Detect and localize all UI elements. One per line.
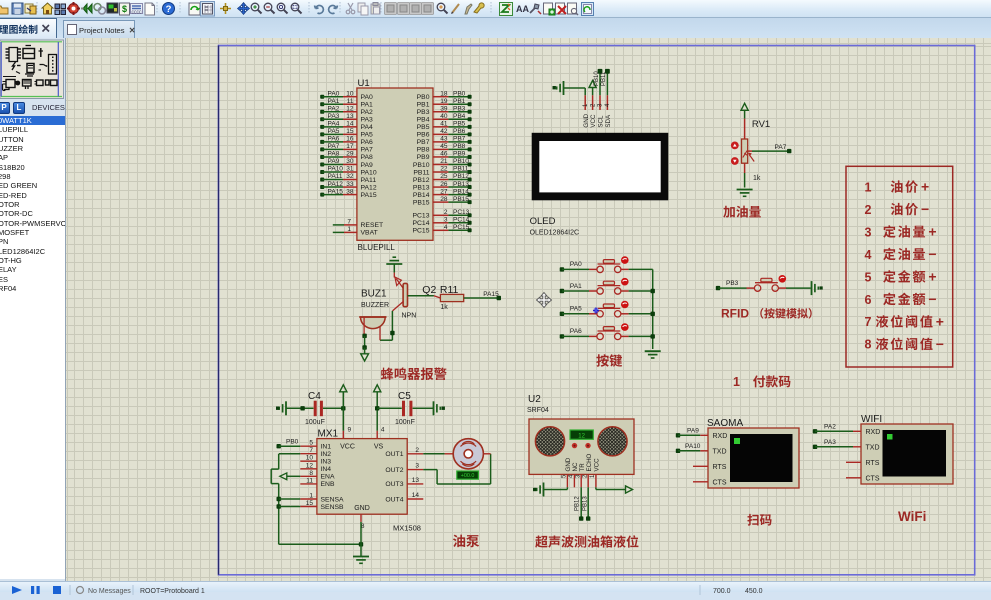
svg-text:9: 9 [348,427,352,434]
svg-text:PA4: PA4 [328,121,340,128]
module WIFI designator [861,414,882,425]
svg-text:43: 43 [440,136,448,143]
svg-text:PA6: PA6 [328,136,340,143]
U1 pin 2 (PC13) with net PC13 wire+node [412,209,471,220]
svg-text:38: 38 [346,188,354,195]
node PA2 wire to WIFI RXD [813,424,861,434]
svg-text:PA0: PA0 [328,90,340,97]
module SAOMA designator [707,418,743,429]
svg-text:PB13: PB13 [413,184,430,191]
wire VCC rail [342,392,344,431]
svg-text:OUT2: OUT2 [385,467,403,474]
MX1 pin name VCC [340,444,355,451]
wire rail vertical [652,269,654,349]
svg-text:PB4: PB4 [453,113,466,120]
svg-text:PA12: PA12 [328,181,344,188]
node PA10 wire to SAOMA TXD [676,443,708,453]
svg-text:PB12: PB12 [453,173,469,180]
svg-text:PA6: PA6 [361,139,374,146]
SAOMA pin TXD [713,448,727,455]
OLED pin 3 (SCL) [598,95,605,127]
svg-text:PA2: PA2 [824,424,836,431]
svg-text:PA10: PA10 [685,443,701,450]
svg-text:GND: GND [354,505,370,512]
U1 pin 18 (PB0) with net PB0 wire+node [417,90,472,101]
wire GND pin down [360,522,362,557]
power VCC arrow (OLED) [589,81,596,96]
IC U1 value BLUEPILL [358,243,396,252]
svg-text:1: 1 [309,493,313,500]
RV1 actuator up [731,142,739,150]
U1 pin 46 (PB9) with net PB9 wire+node [417,151,472,162]
motor rpm display [457,471,479,479]
svg-text:$: $ [122,4,127,14]
svg-text:1: 1 [347,226,351,233]
svg-text:PA11: PA11 [328,173,343,180]
svg-text:26: 26 [440,181,448,188]
RV1 wiper arrow [748,153,754,162]
table row 2 油价- [865,201,930,217]
wire TR to node PB12 [575,487,584,521]
wire button PA0 to rail [629,268,653,270]
resistor R11 designator [440,284,459,296]
U1 pin 7 (RESET) [333,219,383,230]
svg-text:RTS: RTS [866,460,880,467]
potentiometer RV1 body [742,119,748,173]
U1 pin 43 (PB7) with net PB7 wire+node [417,136,472,147]
MX1 pin GND (8) [361,514,365,530]
table row 8 液位阈值- [865,336,944,352]
node PA3 wire to WIFI TXD [813,439,861,449]
push button PA5 row, node PA5 [560,301,629,317]
svg-text:BLUEPILL: BLUEPILL [358,243,396,252]
SAOMA pin RTS [713,464,727,471]
svg-text:TR: TR [579,463,586,472]
svg-text:AA: AA [516,4,529,14]
svg-text:+00.0: +00.0 [461,473,475,479]
OLED value OLED12864I2C [530,230,579,237]
label WiFi [898,509,926,524]
MX1 VS pin 4 [377,427,385,439]
wire VS rail [376,392,378,431]
SAOMA pin RXD [713,433,728,440]
U1 pin 13 (PA3) with net PA3 wire+node [320,113,373,124]
wire BUZ1 left pin down [362,317,366,354]
svg-text:PB14: PB14 [453,188,469,195]
svg-text:−: − [928,291,936,307]
U1 pin 10 (PA0) with net PA0 wire+node [320,90,373,101]
svg-text:BUZ1: BUZ1 [361,289,387,300]
svg-text:30: 30 [346,158,354,165]
svg-text:IN1: IN1 [321,444,332,451]
svg-text:22: 22 [440,166,448,173]
U1 pin 26 (PB13) with net PB13 wire+node [413,181,472,192]
svg-text:PB0: PB0 [417,94,430,101]
svg-text:SCL: SCL [598,115,605,128]
svg-text:PA15: PA15 [483,291,499,298]
U2 pin 5 (GND) [562,457,572,487]
MX1 pin 8 (ENA) [300,470,335,481]
U1 pin 14 (PA4) with net PA4 wire+node [320,121,373,132]
svg-text:PA7: PA7 [328,143,340,150]
MX1 pin name VS [374,444,384,451]
svg-text:17: 17 [346,143,354,150]
svg-text:No Messages: No Messages [88,588,131,595]
svg-text:PB11: PB11 [413,169,429,176]
svg-text:5: 5 [865,270,872,284]
ground (buttons rail) [645,351,661,358]
resistor R11 value 1k [440,304,448,311]
svg-text:4: 4 [865,248,872,262]
svg-text:700.0: 700.0 [713,588,731,595]
svg-text:PB6: PB6 [453,128,466,135]
svg-text:PA1: PA1 [328,98,340,105]
wire ENA arrow to pin [287,475,301,477]
svg-text:OUT3: OUT3 [385,481,403,488]
U1 pin 32 (PA11) with net PA11 wire+node [320,173,376,184]
svg-text:PB12: PB12 [575,496,581,511]
capacitor C5 designator [398,391,411,402]
wire ECHO to node PB13 [583,487,591,521]
svg-text:VCC: VCC [340,444,355,451]
U1 pin 27 (PB14) with net PB14 wire+node [413,188,472,199]
svg-text:PB15: PB15 [453,196,469,203]
svg-text:41: 41 [440,121,448,128]
left object selector panel [0,38,66,581]
svg-text:15: 15 [306,500,314,507]
svg-text:?: ? [166,4,172,15]
svg-text:CTS: CTS [866,475,880,482]
U1 pin 3 (PC14) with net PC14 wire+node [412,217,471,228]
svg-text:MX1508: MX1508 [393,524,421,533]
svg-text:PA10: PA10 [328,166,344,173]
U1 pin 30 (PA9) with net PA9 wire+node [320,158,373,169]
module WIFI body [861,424,953,484]
svg-text:RTS: RTS [713,464,727,471]
wire VS junction to C5 [375,406,402,410]
svg-text:−: − [936,336,944,352]
label 1 付款码 [733,375,790,389]
svg-text:100uF: 100uF [305,419,325,426]
svg-text:7: 7 [347,219,351,226]
svg-text:PB3: PB3 [417,109,430,116]
svg-text:10: 10 [306,455,314,462]
wire RV1 wiper to node PA7 [748,144,792,153]
svg-text:PA6: PA6 [570,328,582,335]
cursor move arrow artifact [537,293,552,308]
svg-text:GND: GND [565,457,572,471]
svg-text:+: + [921,179,929,195]
svg-text:PC13: PC13 [453,209,470,216]
wire Q2 base to R11 [408,296,441,298]
svg-text:1: 1 [733,375,740,389]
svg-text:PB3: PB3 [726,280,739,287]
wire bracket vertical with bulge [271,454,279,545]
label 油泵 [453,535,479,548]
U2 pin 3 (TR) [575,463,585,488]
svg-text:10: 10 [346,90,354,97]
SAOMA pin RTS stub [693,465,708,467]
power terminal down arrow (buzzer) [361,354,369,361]
svg-text:PA3: PA3 [328,113,340,120]
wire RFID button to ground [786,287,811,289]
svg-text:PC13: PC13 [412,213,429,220]
ground (C5) [434,401,445,415]
motor (oil pump) body [453,439,483,469]
power arrow (RV1) [741,103,748,118]
U1 pin 19 (PB1) with net PB1 wire+node [417,98,472,109]
svg-text:PB9: PB9 [417,154,430,161]
svg-text:2: 2 [415,447,419,454]
U1 pin 11 (PA1) with net PA1 wire+node [320,98,373,109]
svg-text:31: 31 [346,166,354,173]
svg-text:OUT4: OUT4 [385,496,403,503]
wire SCL + node PB10 [594,69,603,95]
module SAOMA body [708,428,799,488]
svg-text:PA9: PA9 [361,162,374,169]
svg-text:PA2: PA2 [361,109,374,116]
svg-text:−: − [928,246,936,262]
svg-text:OUT1: OUT1 [385,451,403,458]
svg-text:PA2: PA2 [328,105,340,112]
U1 pin 1 (VBAT) [333,226,378,237]
table box (key legend) [846,166,953,367]
svg-text:RXD: RXD [866,429,881,436]
svg-text:PA10: PA10 [361,169,377,176]
svg-text:7: 7 [309,447,313,454]
svg-text:ENB: ENB [321,481,335,488]
U1 pin 45 (PB8) with net PB8 wire+node [417,143,472,154]
wire ground to Q2 [393,264,395,273]
svg-text:PB13: PB13 [453,181,469,188]
svg-text:PA0: PA0 [570,261,582,268]
svg-text:+: + [928,268,936,284]
svg-text:OLED: OLED [530,216,556,227]
table row 1 油价+ [865,179,930,195]
RV1 value 1k [753,175,761,182]
SAOMA pin CTS stub [693,481,708,483]
svg-text:PA1: PA1 [570,283,582,290]
ground (U2) [533,483,544,497]
MX1 pin 10 (IN3) [300,455,331,466]
table row 4 定油量- [865,246,937,262]
wire button row to rail + junction [629,334,655,338]
svg-text:15: 15 [346,128,354,135]
WIFI pin RTS stub [846,461,861,463]
svg-text:3: 3 [415,463,419,470]
svg-text:450.0: 450.0 [745,588,763,595]
MX1 pin 3 (OUT2) [385,463,423,474]
svg-text:13: 13 [412,477,420,484]
svg-text:TXD: TXD [866,444,880,451]
node PA9 wire to SAOMA RXD [676,428,708,438]
svg-text:PB11: PB11 [453,166,469,173]
svg-text:PC15: PC15 [453,224,470,231]
tab 原理图绘制 (selected) [0,18,57,39]
svg-text:VS: VS [374,444,384,451]
buzzer BUZ1 body [359,317,386,329]
ground (MX1) [353,557,369,564]
RV1 actuator down [731,157,739,165]
status bar [0,581,991,592]
svg-text:PB5: PB5 [417,124,430,131]
U1 pin 16 (PA6) with net PA6 wire+node [320,136,373,147]
label 超声波测油箱液位 [535,535,638,547]
P/L buttons + DEVICES header [0,102,66,116]
ground (OLED) [553,81,564,95]
push button PA0 row, node PA0 [560,256,629,272]
U2 pin 4 (NC) [569,462,579,487]
svg-text:RESET: RESET [361,222,384,229]
svg-text:PB9: PB9 [453,151,466,158]
svg-text:25: 25 [440,173,448,180]
svg-text:PB8: PB8 [453,143,466,150]
svg-text:39: 39 [440,105,448,112]
wire SDA + node PB11 [601,69,610,95]
svg-text:PA9: PA9 [687,428,699,435]
MX1 pin 15 (SENSB) [300,500,344,511]
svg-text:45: 45 [440,143,448,150]
svg-text:U1: U1 [358,78,370,89]
buzzer BUZ1 value BUZZER [361,302,389,309]
SAOMA pin CTS [713,479,727,486]
U1 pin 25 (PB12) with net PB12 wire+node [413,173,472,184]
svg-text:GND: GND [583,113,590,127]
wire U2 VCC to power [596,487,626,489]
node PB0 wire to MX1 IN1 [277,439,301,449]
U1 pin 4 (PC15) with net PC15 wire+node [412,224,471,235]
top toolbar [0,0,991,18]
svg-text:29: 29 [346,151,354,158]
U1 pin 29 (PA8) with net PA8 wire+node [320,151,373,162]
svg-text:MX1: MX1 [318,429,339,440]
svg-text:−: − [921,201,929,217]
svg-text:1k: 1k [753,175,761,182]
wire IN2 to bracket [279,453,300,455]
label RFID (按键模拟) [721,307,812,321]
ground (buzzer top, inverted) [386,257,402,264]
tab Project Notes [63,20,135,39]
svg-text:VCC: VCC [590,114,597,128]
capacitor C5 value 100nF [395,419,415,426]
IC MX1 MX1508 body [317,439,407,515]
svg-text:+: + [936,313,944,329]
table row 7 液位阈值+ [865,313,944,329]
svg-text:PC14: PC14 [453,217,470,224]
svg-text:1k: 1k [440,304,448,311]
svg-text:C4: C4 [308,391,321,402]
svg-text:46: 46 [440,151,448,158]
label 蜂鸣器报警 [381,367,447,380]
svg-text:42: 42 [440,128,448,135]
svg-text:PB12: PB12 [413,177,430,184]
svg-text:TXD: TXD [713,448,727,455]
U2 pin 1 (VCC) [590,458,600,487]
svg-text:PB1: PB1 [453,98,466,105]
svg-text:PA4: PA4 [361,124,374,131]
svg-text:PA9: PA9 [328,158,340,165]
svg-text:PA3: PA3 [824,439,836,446]
svg-text:PB0: PB0 [286,439,299,446]
wire Q2 emitter down [380,311,395,340]
svg-text:3: 3 [865,225,872,239]
svg-text:IN2: IN2 [321,451,332,458]
svg-text:40: 40 [440,113,448,120]
svg-text:PA8: PA8 [328,151,340,158]
wire OUT2 to motor loop [423,454,490,484]
U1 pin 41 (PB5) with net PB5 wire+node [417,121,472,132]
wire SENSB junction [277,504,301,508]
svg-text:PA5: PA5 [361,132,374,139]
svg-text:PB7: PB7 [453,136,466,143]
overview preview pane [0,38,66,104]
potentiometer RV1 designator [752,119,770,130]
svg-text:4: 4 [444,224,448,231]
wire OLED GND to ground [564,88,586,95]
svg-text:PA0: PA0 [361,94,374,101]
svg-text:PA12: PA12 [361,184,377,191]
MX1 pin 5 (IN1) [300,440,331,451]
svg-text:SDA: SDA [605,114,612,128]
svg-text:PB15: PB15 [413,199,430,206]
svg-text:3: 3 [444,217,448,224]
U1 pin 15 (PA5) with net PA5 wire+node [320,128,373,139]
capacitor C4 designator [308,391,321,402]
svg-text:PA5: PA5 [328,128,340,135]
table row 5 定金额+ [865,268,937,284]
buzzer BUZ1 designator [361,289,387,300]
svg-text:C5: C5 [398,391,411,402]
svg-text:PB13: PB13 [583,496,589,511]
U1 pin 21 (PB10) with net PB10 wire+node [413,158,472,169]
wire C5 to ground [413,407,434,409]
IC U1 BLUEPILL body [357,88,433,240]
wire RV1 to ground [744,173,746,188]
svg-text:OLED12864I2C: OLED12864I2C [530,230,579,237]
svg-text:7: 7 [865,315,872,329]
svg-text:4: 4 [381,427,385,434]
svg-text:BUZZER: BUZZER [361,302,389,309]
OLED pin 1 (GND) [583,95,590,127]
svg-text:11: 11 [347,98,354,105]
svg-text:RFID: RFID [721,307,749,321]
svg-text:16: 16 [346,136,354,143]
MX1 pin 2 (OUT1) [385,447,423,458]
push button PA6 row, node PA6 [560,323,629,339]
device list [0,116,65,579]
sensor U2 value SRF04 [527,407,549,414]
svg-text:PB7: PB7 [417,139,430,146]
svg-text:SENSA: SENSA [321,496,345,503]
ground (RFID) [812,281,823,295]
power arrow (MX1 VS) [374,385,381,392]
svg-text:PC15: PC15 [412,228,429,235]
U1 pin 33 (PA12) with net PA12 wire+node [320,181,377,192]
svg-text:IN3: IN3 [321,459,332,466]
MX1 pin 11 (ENB) [300,477,335,488]
svg-text:33: 33 [346,181,354,188]
svg-text:PB1: PB1 [417,102,430,109]
U1 pin 39 (PB3) with net PB3 wire+node [417,105,472,116]
U1 pin 17 (PA7) with net PA7 wire+node [320,143,373,154]
svg-text:WiFi: WiFi [898,509,926,524]
svg-text:R11: R11 [440,284,459,296]
WIFI pin TXD [866,444,880,451]
capacitor C4 [315,401,321,417]
svg-text:ENA: ENA [321,474,335,481]
svg-text:2: 2 [444,209,448,216]
label 扫码 [747,514,771,526]
